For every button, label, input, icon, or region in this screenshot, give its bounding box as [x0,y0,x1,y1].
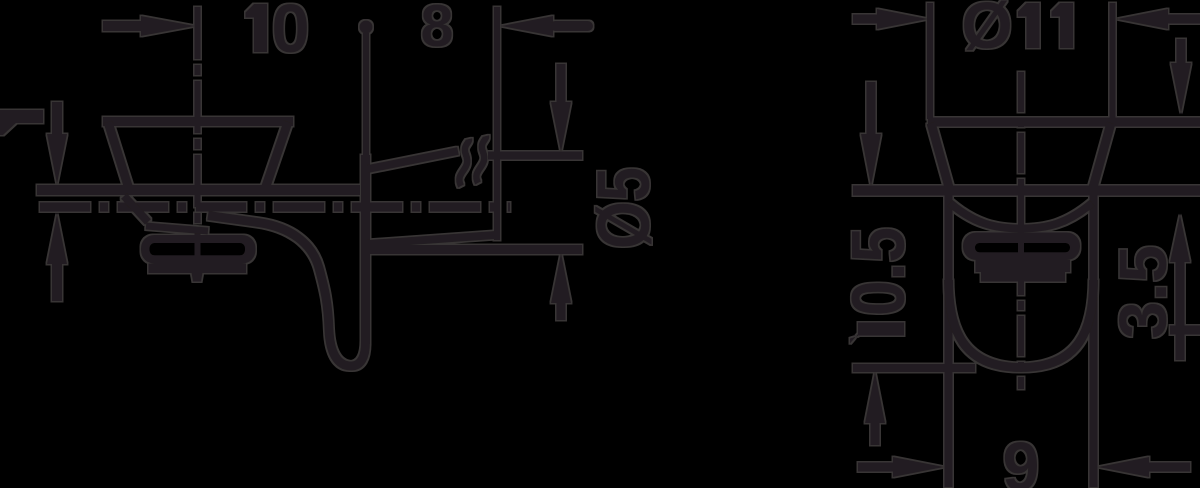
support arm outer curve [208,216,366,367]
clip bottom bar [149,264,247,274]
ext line x=497 [494,7,500,240]
pin bottom slant [368,235,495,244]
dim 10.5 down arrowhead [861,134,881,186]
dim 1 lower shaft [52,263,62,301]
clip slot centerline cross [1018,240,1024,258]
svg-text:Ø5: Ø5 [582,167,665,249]
label 10 [254,4,267,52]
svg-text:9: 9 [1003,428,1040,488]
arm inner vertical / pin root edge [361,155,370,344]
clip bottom bar 1 [976,260,1071,272]
dim O11 left shaft [853,15,878,24]
clip chamfer [124,196,148,222]
svg-text:Ø: Ø [961,0,1012,62]
dim 9 right shaft [1149,463,1190,472]
body U bottom [949,280,1094,368]
ext line x=1112.5 [1110,3,1116,119]
clip pill slot centerline cross [195,240,201,258]
label 10.5 (rotated) [858,323,904,336]
centerline / ext line x=197.5 [195,7,201,283]
clip pill body [141,235,256,264]
dim 3.5 down arrowhead [1171,63,1191,113]
dim 9 right arrowhead [1098,457,1149,477]
dim 1 upper shaft [52,102,62,135]
dim 10.5 bottom ext line [853,364,975,372]
dim 1: label (rotated) [0,110,43,123]
svg-text:8: 8 [421,0,454,59]
clip shoulder [146,226,208,231]
dim 9 left shaft [858,463,894,472]
shelf line [37,185,360,195]
dim 3.5 lower shaft [1176,261,1185,360]
pin break mark 1 [459,139,469,186]
head left slant [108,122,129,189]
dim 9 left arrowhead [893,457,944,477]
O5 down arrowhead [551,102,571,152]
dim 10/8 row: left arrow shaft [103,21,142,31]
head top line [928,118,1200,127]
dim 1 up arrowhead [47,214,67,264]
clip pill slot (front) [975,243,1070,252]
head right slant [265,122,288,189]
O5 upper shaft [557,64,566,103]
dimension dot at 10/8 boundary [360,21,373,34]
dim 10.5 lower shaft [871,422,880,445]
clip pill body (front) [963,233,1080,261]
dim 10.5 up arrowhead [865,372,885,423]
ext line x=930 [927,3,933,119]
body left vertical / ext [945,195,953,487]
O5 lower shaft [557,302,566,320]
head right slant [1092,123,1111,191]
shelf line [853,186,1200,196]
dim O11 right shaft [1168,15,1200,24]
pin top ext line (O5 top) [488,152,582,160]
dim 1 down arrowhead [47,134,67,184]
pin top slant [368,151,458,169]
dim O11 right arrowhead [1117,9,1168,29]
svg-text:0.5: 0.5 [836,227,920,316]
dim 10 left arrowhead [141,16,195,36]
dim 3.5 up arrowhead [1170,215,1190,262]
dim 10.5 upper shaft [867,82,876,135]
O5 up arrowhead [551,253,571,303]
dim 8 right arrowhead [501,16,553,36]
clip bottom bar 2 [981,272,1065,282]
ext line x=366 upper [363,33,369,155]
dim 8 right shaft [555,21,588,31]
head top line [103,117,293,126]
centerline vertical [1018,72,1024,389]
head dome arc [950,203,1092,229]
dim 3.5 bottom tick [1170,326,1200,335]
clip nub [192,273,203,282]
svg-text:0: 0 [271,0,309,67]
dim O11 left arrowhead [877,9,928,29]
dash-dot center axis [40,203,510,212]
pin break mark 2 [476,136,486,183]
clip pill slot [150,243,246,255]
svg-text:3.5: 3.5 [1106,245,1181,339]
body right vertical / ext [1090,195,1098,487]
dim 3.5 upper shaft [1177,39,1186,64]
pin bottom ext line (O5 bottom) [364,245,582,254]
head left slant [931,123,950,191]
